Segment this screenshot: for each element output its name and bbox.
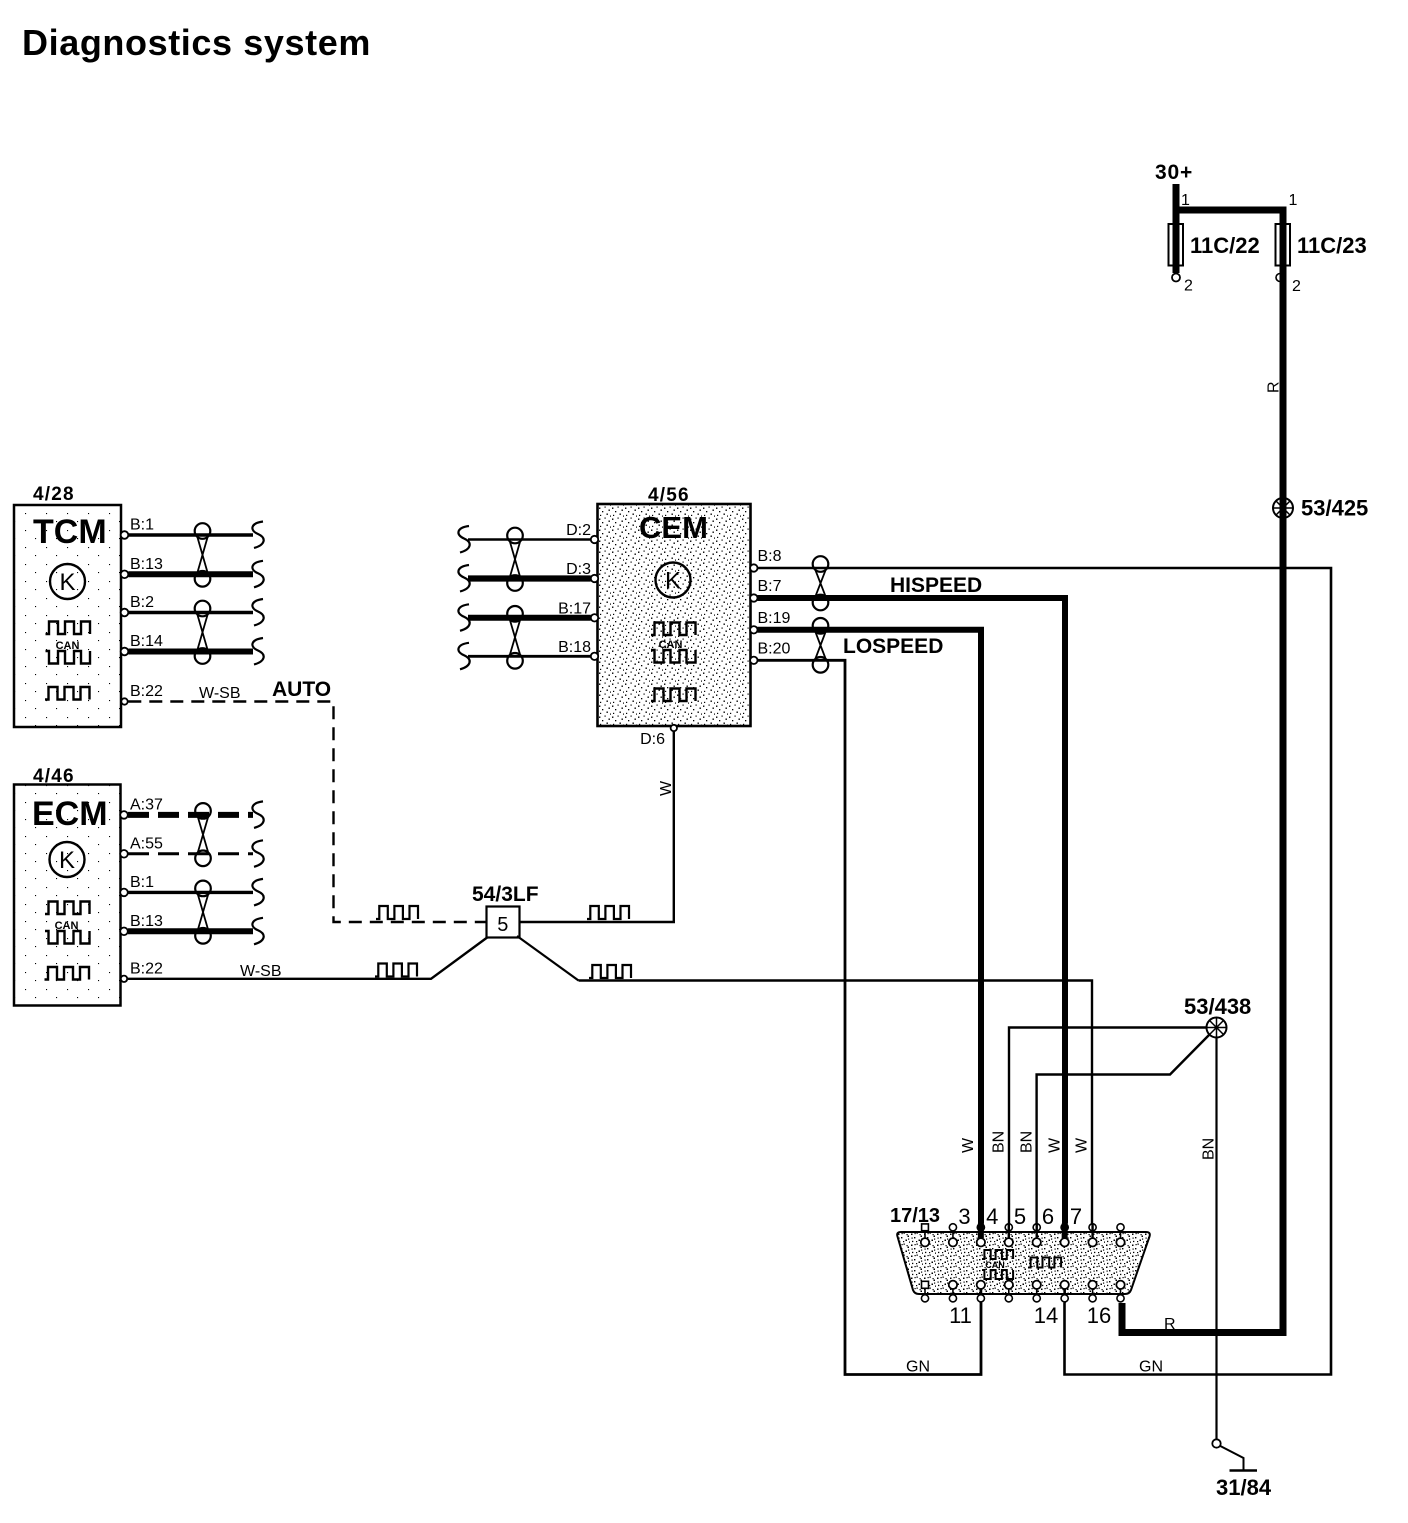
svg-text:A:55: A:55: [130, 835, 163, 852]
svg-text:TCM: TCM: [33, 513, 107, 551]
svg-text:D:2: D:2: [566, 522, 591, 539]
svg-text:B:8: B:8: [758, 548, 782, 565]
svg-text:W: W: [658, 780, 675, 796]
svg-text:A:37: A:37: [130, 796, 163, 813]
svg-text:2: 2: [1184, 278, 1193, 295]
svg-text:B:2: B:2: [130, 594, 154, 611]
svg-text:5: 5: [497, 914, 508, 936]
svg-text:11C/23: 11C/23: [1297, 233, 1367, 258]
svg-text:3: 3: [958, 1204, 970, 1229]
svg-text:31/84: 31/84: [1216, 1475, 1272, 1500]
svg-text:30+: 30+: [1155, 161, 1193, 184]
svg-text:53/438: 53/438: [1184, 994, 1251, 1019]
svg-text:4/46: 4/46: [33, 766, 75, 787]
svg-text:CAN: CAN: [985, 1260, 1005, 1270]
svg-text:B:13: B:13: [130, 913, 163, 930]
svg-text:D:6: D:6: [640, 731, 665, 748]
svg-text:BN: BN: [1201, 1138, 1218, 1160]
svg-text:B:19: B:19: [758, 610, 791, 627]
svg-text:K: K: [59, 569, 75, 596]
svg-text:B:20: B:20: [758, 640, 791, 657]
svg-text:B:1: B:1: [130, 874, 154, 891]
svg-text:54/3LF: 54/3LF: [472, 883, 539, 906]
svg-text:4: 4: [986, 1204, 998, 1229]
svg-text:6: 6: [1042, 1204, 1054, 1229]
svg-text:AUTO: AUTO: [272, 678, 331, 701]
svg-text:16: 16: [1087, 1303, 1111, 1328]
svg-text:4/56: 4/56: [648, 485, 690, 506]
svg-text:CEM: CEM: [639, 510, 708, 545]
svg-text:K: K: [59, 847, 75, 874]
svg-text:W: W: [1074, 1137, 1091, 1153]
svg-text:BN: BN: [991, 1131, 1008, 1153]
svg-text:GN: GN: [1139, 1359, 1163, 1376]
svg-text:5: 5: [1014, 1204, 1026, 1229]
svg-text:B:22: B:22: [130, 683, 163, 700]
svg-text:4/28: 4/28: [33, 484, 75, 505]
svg-text:B:1: B:1: [130, 517, 154, 534]
svg-text:GN: GN: [906, 1359, 930, 1376]
svg-text:W: W: [1047, 1137, 1064, 1153]
svg-text:D:3: D:3: [566, 561, 591, 578]
svg-text:HISPEED: HISPEED: [890, 574, 982, 597]
svg-text:7: 7: [1070, 1204, 1082, 1229]
svg-text:11C/22: 11C/22: [1190, 233, 1260, 258]
svg-text:17/13: 17/13: [890, 1205, 940, 1227]
svg-text:53/425: 53/425: [1301, 496, 1368, 521]
svg-text:B:22: B:22: [130, 961, 163, 978]
svg-text:B:17: B:17: [558, 600, 591, 617]
svg-text:R: R: [1164, 1316, 1176, 1333]
svg-text:2: 2: [1292, 278, 1301, 295]
svg-text:W-SB: W-SB: [240, 963, 281, 980]
svg-text:11: 11: [949, 1303, 972, 1328]
svg-text:W: W: [960, 1137, 977, 1153]
svg-text:B:13: B:13: [130, 556, 163, 573]
svg-text:W-SB: W-SB: [199, 685, 240, 702]
svg-text:ECM: ECM: [32, 795, 108, 833]
svg-text:14: 14: [1034, 1303, 1058, 1328]
svg-text:1: 1: [1181, 192, 1190, 209]
svg-text:K: K: [665, 568, 681, 595]
svg-text:Diagnostics system: Diagnostics system: [22, 22, 371, 63]
svg-text:B:14: B:14: [130, 633, 163, 650]
svg-text:BN: BN: [1019, 1131, 1036, 1153]
svg-text:R: R: [1266, 381, 1283, 393]
svg-text:B:18: B:18: [558, 639, 591, 656]
svg-text:1: 1: [1289, 192, 1298, 209]
svg-text:LOSPEED: LOSPEED: [843, 635, 943, 658]
svg-text:B:7: B:7: [758, 578, 782, 595]
